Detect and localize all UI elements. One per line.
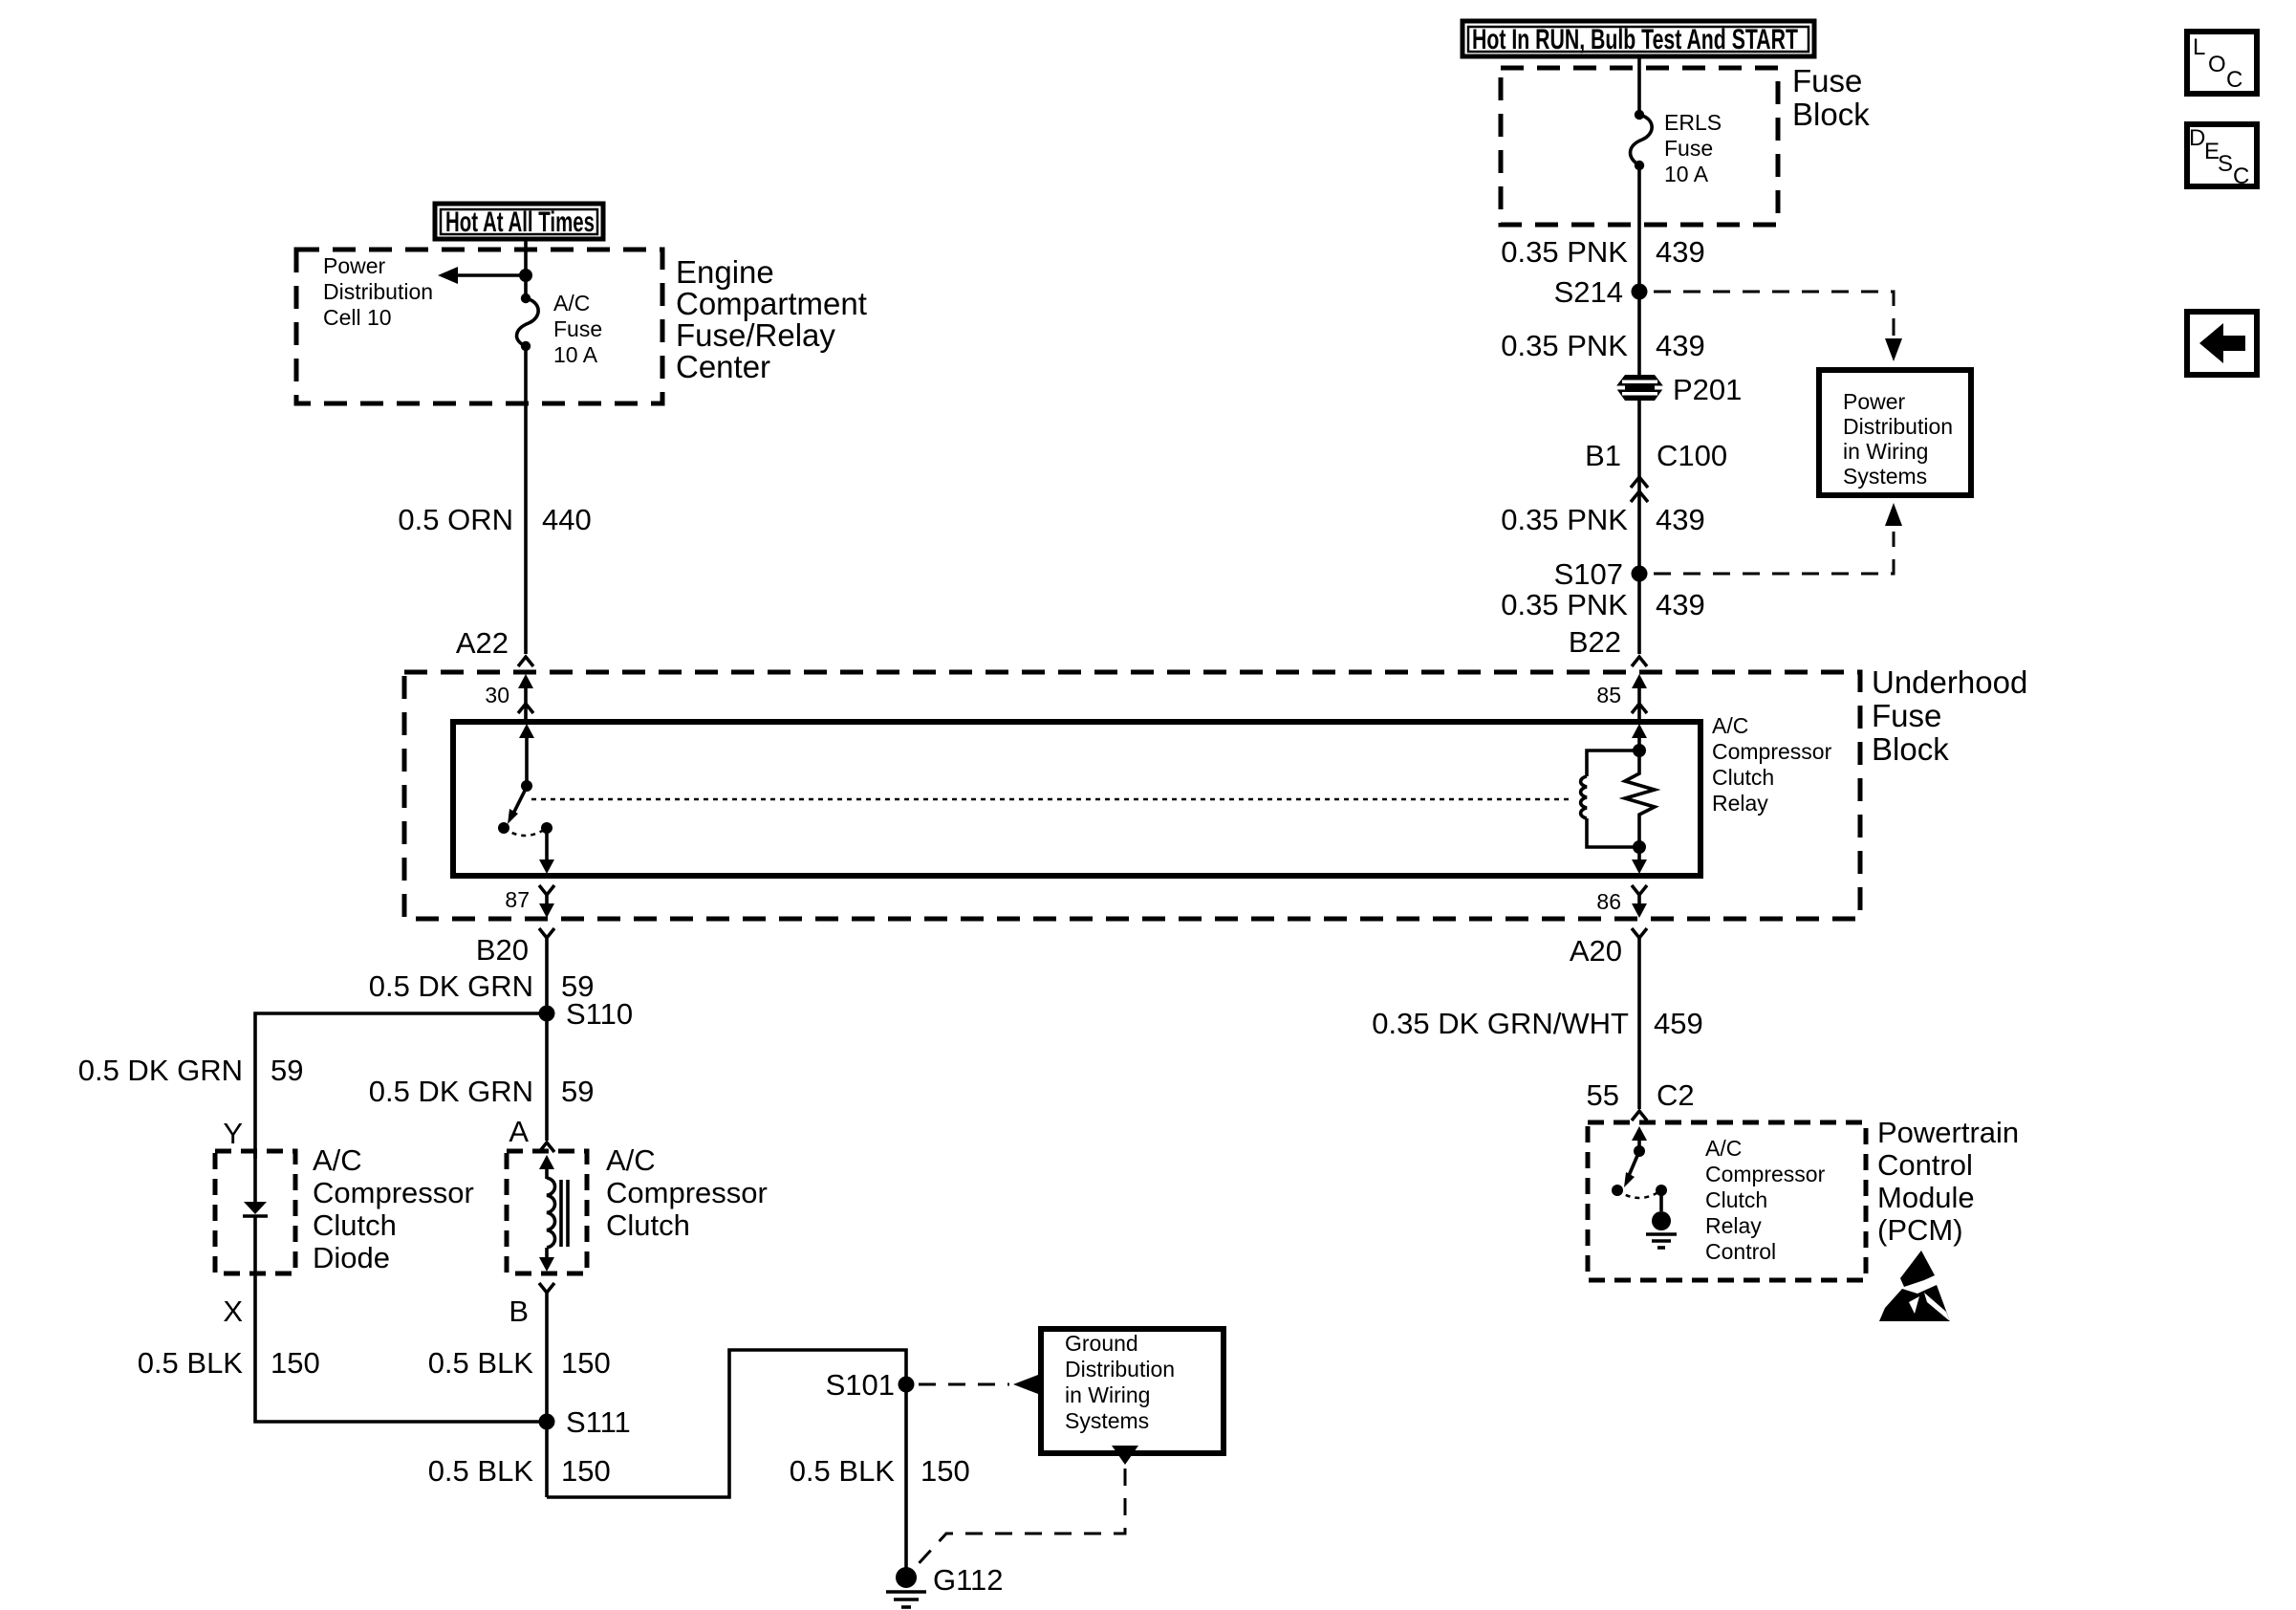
svg-text:A/C: A/C (553, 291, 590, 315)
svg-text:A/C: A/C (1712, 713, 1748, 738)
svg-text:Cell 10: Cell 10 (323, 305, 392, 330)
svg-text:Control: Control (1877, 1148, 1973, 1182)
svg-text:S111: S111 (566, 1405, 631, 1439)
connector chevron at B22 (1632, 657, 1647, 666)
relay output to pin 87 (539, 828, 554, 874)
A/C Compressor Clutch Diode box (dashed) (215, 1151, 295, 1273)
relay actuation (dashed link coil to switch) (531, 798, 1570, 801)
wire A20 down to PCM (1637, 945, 1641, 1109)
wire label 0.5 BLK 150 (diode branch) (138, 1346, 320, 1380)
label: A/C Fuse 10 A (553, 291, 602, 367)
component label: Underhood Fuse Block (1872, 664, 2027, 767)
feed arrow to Power Distribution Cell 10 (438, 267, 524, 284)
svg-text:Center: Center (676, 349, 770, 384)
svg-text:in Wiring: in Wiring (1843, 439, 1928, 464)
Power Distribution in Wiring Systems box (1819, 370, 1971, 495)
svg-text:S: S (2218, 151, 2233, 177)
svg-text:C100: C100 (1657, 439, 1727, 472)
svg-text:L: L (2193, 34, 2205, 60)
svg-text:0.35 PNK: 0.35 PNK (1501, 235, 1628, 269)
ground G112 (886, 1563, 1004, 1607)
svg-text:459: 459 (1654, 1007, 1703, 1040)
wire label 0.35 PNK 439 (1501, 235, 1704, 269)
svg-text:Fuse/Relay: Fuse/Relay (676, 317, 835, 353)
svg-text:in Wiring: in Wiring (1065, 1382, 1150, 1407)
svg-text:A20: A20 (1570, 934, 1622, 968)
svg-text:ERLS: ERLS (1664, 110, 1722, 135)
svg-text:0.5 BLK: 0.5 BLK (138, 1346, 244, 1380)
Underhood Fuse Block (dashed) (404, 672, 1860, 919)
svg-text:Underhood: Underhood (1872, 664, 2027, 700)
svg-text:440: 440 (542, 503, 592, 536)
connector chevron below box at A20 (1632, 928, 1647, 945)
svg-text:10 A: 10 A (553, 342, 598, 367)
svg-text:Fuse: Fuse (1872, 698, 1941, 733)
Powertrain Control Module box (dashed) (1588, 1122, 1866, 1280)
svg-text:Fuse: Fuse (1792, 63, 1862, 98)
clutch coil input arrow (539, 1155, 554, 1179)
svg-text:S107: S107 (1554, 557, 1623, 591)
svg-text:0.5 BLK: 0.5 BLK (428, 1454, 534, 1488)
ESD sensitivity symbol (1879, 1251, 1950, 1321)
svg-text:Clutch: Clutch (1712, 765, 1774, 790)
header: Hot In RUN, Bulb Test And START (1462, 21, 1814, 56)
wire clutch B down to S111 (545, 1300, 549, 1497)
clutch coil output arrow (539, 1248, 554, 1272)
wire label 0.35 PNK 439 (1501, 588, 1704, 621)
svg-text:10 A: 10 A (1664, 162, 1709, 186)
svg-text:0.35 PNK: 0.35 PNK (1501, 503, 1628, 536)
svg-text:0.5 DK GRN: 0.5 DK GRN (369, 969, 533, 1003)
wire label 0.5 DK GRN 59 (diode branch) (78, 1054, 304, 1087)
label: ERLS Fuse 10 A (1664, 110, 1722, 186)
wire from A/C fuse down to A22 (524, 346, 528, 654)
label: Power Distribution Cell 10 (323, 253, 433, 330)
relay coil node bottom (1633, 840, 1646, 854)
junction node (519, 269, 532, 282)
connector C100 (double chevron) (1631, 477, 1648, 502)
svg-text:Module: Module (1877, 1181, 1975, 1214)
svg-text:Relay: Relay (1705, 1213, 1762, 1238)
svg-text:B1: B1 (1585, 439, 1621, 472)
svg-text:Systems: Systems (1065, 1408, 1149, 1433)
connector chevron at C2 (1632, 1111, 1647, 1120)
relay coil (1581, 776, 1587, 818)
svg-text:86: 86 (1596, 889, 1621, 914)
svg-text:D: D (2189, 125, 2205, 151)
clutch coil (547, 1178, 555, 1248)
svg-text:Block: Block (1872, 731, 1949, 767)
component label: A/C Compressor Clutch (606, 1143, 768, 1242)
connector C100 labels B1 / C100 (1585, 439, 1727, 472)
svg-text:30: 30 (485, 683, 509, 707)
fuse ERLS (symbol) (1631, 110, 1653, 170)
wire S111 to S101 (547, 1350, 906, 1568)
svg-text:S101: S101 (826, 1368, 895, 1402)
svg-text:A22: A22 (456, 626, 509, 660)
wire from ERLS fuse down to B22 (1637, 165, 1641, 654)
component label: Fuse Block (1792, 63, 1870, 132)
DESC legend box (2187, 124, 2257, 189)
relay coil bottom (1587, 818, 1639, 847)
dashed reference from S101 to Ground Distribution (919, 1375, 1038, 1394)
svg-text:Distribution: Distribution (1843, 414, 1953, 439)
svg-text:Hot At All Times: Hot At All Times (445, 207, 595, 238)
pin 30 connector (arrow + chevron) (485, 674, 533, 719)
svg-text:Ground: Ground (1065, 1331, 1138, 1356)
PCM driver label: A/C Compressor Clutch Relay Control (1705, 1136, 1826, 1264)
wire label 0.5 BLK 150 (clutch branch) (428, 1346, 611, 1380)
wire S110 down to A/C compressor clutch (545, 1013, 549, 1141)
wire from header into engine box (524, 239, 528, 299)
svg-text:59: 59 (271, 1054, 303, 1087)
svg-text:150: 150 (561, 1454, 611, 1488)
wire branch S110 to diode (255, 1013, 547, 1159)
splice S101 (826, 1368, 915, 1402)
svg-text:Power: Power (323, 253, 386, 278)
splice S107 (1554, 557, 1648, 591)
svg-text:Compressor: Compressor (313, 1176, 474, 1209)
svg-text:55: 55 (1587, 1078, 1619, 1112)
wire label 0.5 BLK 150 (below S111) (428, 1454, 611, 1488)
connector chevron at B (539, 1283, 554, 1300)
svg-text:(PCM): (PCM) (1877, 1213, 1963, 1247)
wire label 0.35 PNK 439 (1501, 503, 1704, 536)
PCM switch input arrow (1632, 1126, 1647, 1157)
pin 86 connector (chevron + arrow) (1596, 885, 1647, 918)
LOC legend box (2187, 32, 2257, 94)
relay output to pin 86 (1632, 847, 1647, 874)
wire label 0.5 ORN 440 (398, 503, 591, 536)
wire from header into fuse block (1637, 56, 1641, 115)
component label: Powertrain Control Module (PCM) (1877, 1116, 2019, 1247)
svg-text:B: B (509, 1295, 529, 1328)
svg-text:Y: Y (223, 1117, 243, 1150)
dashed reference from Ground Distribution to G112 (912, 1446, 1138, 1571)
PCM switch contact dots (1612, 1185, 1623, 1196)
svg-text:59: 59 (561, 1075, 594, 1108)
svg-text:439: 439 (1656, 329, 1705, 362)
A/C compressor clutch relay (solid box) (453, 722, 1700, 876)
wire B20 down to S110 (545, 945, 549, 1013)
svg-text:A/C: A/C (313, 1143, 362, 1177)
svg-text:Distribution: Distribution (1065, 1357, 1175, 1382)
wire label 0.5 DK GRN 59 (369, 969, 595, 1003)
svg-text:A/C: A/C (1705, 1136, 1742, 1161)
connector chevron below box at B20 (539, 928, 554, 945)
svg-text:Fuse: Fuse (553, 316, 602, 341)
svg-text:439: 439 (1656, 235, 1705, 269)
dashed reference from S107 to Power Distribution (1654, 503, 1902, 574)
fuse A/C (symbol) (517, 294, 539, 351)
svg-text:150: 150 (921, 1454, 970, 1488)
svg-text:0.5 DK GRN: 0.5 DK GRN (78, 1054, 243, 1087)
svg-text:Compartment: Compartment (676, 286, 867, 321)
splice S110 (539, 997, 634, 1031)
svg-text:C: C (2226, 67, 2242, 93)
svg-text:Clutch: Clutch (313, 1208, 397, 1242)
connector chevron at A (539, 1142, 554, 1152)
component label: Engine Compartment Fuse/Relay Center (676, 254, 867, 384)
PCM switch arm (1624, 1151, 1639, 1187)
svg-text:Clutch: Clutch (1705, 1187, 1767, 1212)
svg-text:439: 439 (1656, 588, 1705, 621)
svg-text:Compressor: Compressor (1705, 1162, 1826, 1186)
relay label: A/C Compressor Clutch Relay (1712, 713, 1832, 816)
relay suppression resistor (1625, 751, 1655, 847)
svg-text:Hot In RUN, Bulb Test And STAR: Hot In RUN, Bulb Test And START (1472, 24, 1798, 55)
svg-text:0.35 PNK: 0.35 PNK (1501, 588, 1628, 621)
svg-text:P201: P201 (1673, 373, 1742, 406)
pin 87 connector (chevron + arrow) (505, 885, 554, 918)
splice S214 (1554, 275, 1648, 309)
Ground Distribution in Wiring Systems box (1041, 1329, 1224, 1453)
svg-text:S110: S110 (566, 997, 633, 1031)
svg-text:87: 87 (505, 887, 530, 912)
svg-text:Relay: Relay (1712, 791, 1768, 816)
svg-text:A/C: A/C (606, 1143, 656, 1177)
svg-text:0.5 ORN: 0.5 ORN (398, 503, 513, 536)
svg-text:0.35 DK GRN/WHT: 0.35 DK GRN/WHT (1372, 1007, 1629, 1040)
clutch coil core lines (561, 1180, 568, 1247)
fuse block (dashed) top right (1501, 68, 1778, 225)
PCM internal ground (1646, 1190, 1677, 1248)
svg-text:85: 85 (1596, 683, 1621, 707)
relay switch arm (508, 787, 527, 824)
svg-text:S214: S214 (1554, 275, 1623, 309)
relay switch common (pin 30 inside) (519, 724, 534, 792)
svg-text:X: X (223, 1295, 243, 1328)
svg-text:150: 150 (271, 1346, 320, 1380)
svg-text:0.5 DK GRN: 0.5 DK GRN (369, 1075, 533, 1108)
svg-text:B22: B22 (1569, 625, 1621, 659)
svg-text:B20: B20 (476, 933, 529, 967)
A/C Compressor Clutch box (dashed) (507, 1151, 587, 1273)
component label: A/C Compressor Clutch Diode (313, 1143, 474, 1274)
header: Hot At All Times (435, 204, 603, 239)
svg-text:0.35 PNK: 0.35 PNK (1501, 329, 1628, 362)
svg-text:Control: Control (1705, 1239, 1776, 1264)
svg-text:0.5 BLK: 0.5 BLK (428, 1346, 534, 1380)
svg-text:Powertrain: Powertrain (1877, 1116, 2019, 1149)
svg-text:C: C (2233, 163, 2249, 189)
wire diode to S111 (255, 1273, 547, 1422)
svg-text:Engine: Engine (676, 254, 774, 290)
wire label 0.5 DK GRN 59 (clutch branch) (369, 1075, 595, 1108)
svg-text:150: 150 (561, 1346, 611, 1380)
svg-text:Fuse: Fuse (1664, 136, 1713, 161)
svg-text:O: O (2208, 52, 2226, 77)
relay coil branch top (1587, 724, 1647, 776)
svg-text:C2: C2 (1657, 1078, 1695, 1112)
relay switch throw arc (dashed) (504, 828, 547, 836)
svg-text:Power: Power (1843, 389, 1906, 414)
wire label 0.35 DK GRN/WHT 459 (1372, 1007, 1702, 1040)
connector chevron at A22 (518, 657, 533, 666)
pin 85 connector (arrow + chevron) (1596, 674, 1647, 719)
svg-text:Diode: Diode (313, 1241, 390, 1274)
relay switch contact dots (498, 822, 509, 834)
svg-text:Systems: Systems (1843, 464, 1927, 489)
PCM switch throw arc (dashed) (1617, 1190, 1661, 1198)
connector labels 55 / C2 (1587, 1078, 1695, 1112)
dashed reference from S214 to Power Distribution (1654, 292, 1902, 361)
diode symbol (243, 1151, 268, 1273)
svg-text:Clutch: Clutch (606, 1208, 690, 1242)
svg-text:0.5 BLK: 0.5 BLK (790, 1454, 896, 1488)
pass-through grommet P201 (1615, 373, 1742, 406)
svg-text:Compressor: Compressor (1712, 739, 1832, 764)
svg-text:G112: G112 (933, 1563, 1004, 1597)
Engine Compartment Fuse/Relay Center box (dashed) (296, 250, 662, 403)
svg-text:Distribution: Distribution (323, 279, 433, 304)
svg-text:Block: Block (1792, 97, 1870, 132)
wire label 0.35 PNK 439 (1501, 329, 1704, 362)
splice S111 (539, 1405, 631, 1439)
svg-text:439: 439 (1656, 503, 1705, 536)
back-arrow legend box (2187, 312, 2257, 375)
wire label 0.5 BLK 150 (S101 to G112) (790, 1454, 970, 1488)
svg-text:A: A (509, 1115, 529, 1148)
svg-text:Compressor: Compressor (606, 1176, 768, 1209)
